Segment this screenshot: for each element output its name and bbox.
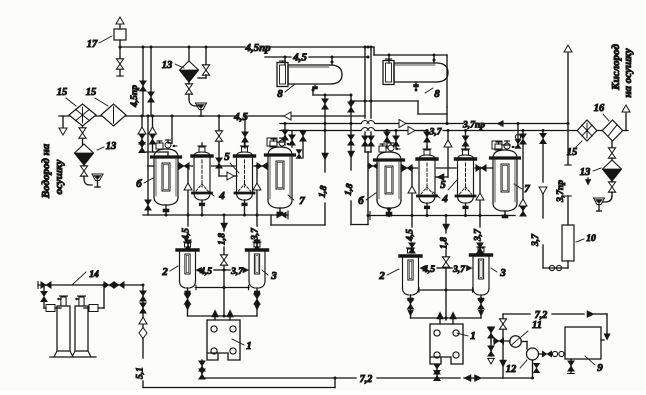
- svg-text:7: 7: [524, 183, 530, 195]
- svg-text:15: 15: [86, 87, 97, 98]
- svg-text:4,5: 4,5: [292, 52, 307, 64]
- svg-text:3: 3: [499, 267, 506, 279]
- svg-text:17: 17: [87, 39, 98, 50]
- svg-text:5,1: 5,1: [136, 367, 146, 379]
- svg-text:б: б: [358, 195, 364, 207]
- svg-text:1,8: 1,8: [218, 233, 228, 245]
- svg-text:7,2: 7,2: [360, 374, 373, 385]
- svg-text:9: 9: [597, 362, 603, 374]
- svg-text:11: 11: [532, 320, 542, 331]
- svg-text:4: 4: [218, 190, 225, 202]
- svg-text:3,7пр: 3,7пр: [556, 180, 566, 203]
- svg-text:3,7: 3,7: [230, 267, 244, 277]
- svg-text:осушку: осушку: [53, 159, 65, 194]
- svg-text:2: 2: [378, 270, 385, 282]
- svg-text:8: 8: [434, 88, 440, 100]
- svg-text:15: 15: [567, 147, 578, 158]
- svg-text:Водород на: Водород на: [40, 143, 52, 199]
- svg-text:5: 5: [224, 151, 230, 163]
- svg-text:8: 8: [277, 88, 283, 100]
- svg-text:4,5: 4,5: [199, 267, 212, 277]
- svg-text:16: 16: [594, 103, 605, 114]
- svg-text:4,5: 4,5: [422, 265, 435, 275]
- svg-text:1,8: 1,8: [318, 185, 330, 199]
- svg-text:3,7: 3,7: [531, 233, 541, 247]
- svg-text:7: 7: [299, 195, 305, 207]
- svg-text:1,8: 1,8: [344, 183, 356, 197]
- svg-text:б: б: [136, 178, 142, 190]
- svg-text:Кислород: Кислород: [610, 44, 622, 91]
- svg-text:3: 3: [270, 270, 277, 282]
- svg-text:4,5: 4,5: [406, 229, 416, 242]
- svg-text:3,7: 3,7: [474, 228, 484, 242]
- svg-text:3,7: 3,7: [452, 265, 466, 275]
- svg-text:13: 13: [106, 141, 117, 152]
- svg-text:на осушку: на осушку: [622, 48, 634, 97]
- svg-text:4: 4: [441, 193, 448, 205]
- svg-text:4,5пр: 4,5пр: [244, 42, 271, 54]
- svg-text:14: 14: [89, 270, 99, 280]
- svg-text:1,8: 1,8: [440, 237, 450, 249]
- svg-text:4,5пр: 4,5пр: [130, 85, 140, 108]
- svg-text:13: 13: [580, 167, 591, 178]
- svg-text:12: 12: [506, 364, 517, 375]
- svg-text:1: 1: [470, 330, 476, 342]
- svg-text:1: 1: [246, 340, 252, 352]
- svg-text:5: 5: [440, 179, 446, 191]
- svg-text:2: 2: [161, 266, 168, 278]
- svg-text:3,7: 3,7: [251, 227, 261, 241]
- svg-text:4,5: 4,5: [182, 228, 192, 241]
- svg-text:13: 13: [162, 60, 173, 71]
- svg-text:3,7пр: 3,7пр: [462, 121, 485, 131]
- svg-text:15: 15: [57, 87, 68, 98]
- svg-text:3,7: 3,7: [429, 128, 443, 138]
- svg-text:10: 10: [586, 234, 596, 244]
